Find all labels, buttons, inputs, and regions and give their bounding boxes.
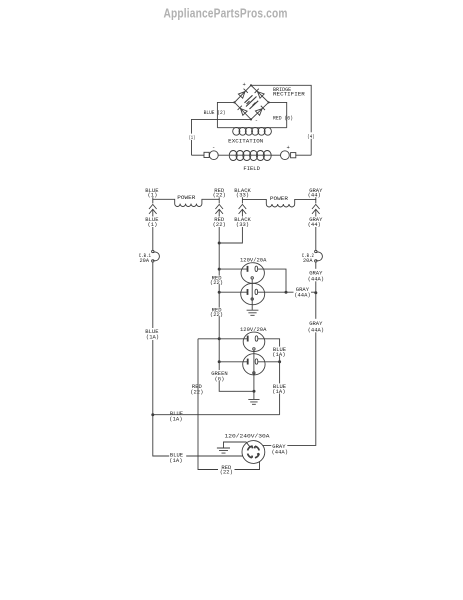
wire: bridge + output to right bus (4) xyxy=(251,85,311,155)
svg-text:BLUE (2): BLUE (2) xyxy=(204,109,226,116)
svg-text:-: - xyxy=(212,144,215,151)
J1 top ground hole xyxy=(251,277,253,279)
J2 bottom slots xyxy=(247,359,249,365)
label RED (22) at J3 bottom xyxy=(218,465,235,475)
svg-text:(1): (1) xyxy=(189,134,195,141)
wire: BLACK column joins RED xyxy=(219,199,242,243)
svg-text:+: + xyxy=(243,81,246,88)
svg-text:+: + xyxy=(287,144,290,151)
wire: bridge right AC corner down to excitation xyxy=(269,102,287,127)
bridge center scribble marks xyxy=(245,95,259,109)
node blue junction left xyxy=(151,413,154,416)
power switch S1 winding xyxy=(153,197,219,206)
svg-text:AppliancePartsPros.com: AppliancePartsPros.com xyxy=(164,7,288,21)
svg-text:(22): (22) xyxy=(220,469,233,476)
receptacle J1 bottom outlet body xyxy=(241,283,265,304)
svg-text:(1A): (1A) xyxy=(272,388,285,395)
connector P4 (GRAY) xyxy=(312,204,320,214)
diode D4 (lower-right edge) xyxy=(255,106,265,116)
node J1 right riser junction xyxy=(285,291,288,294)
bridge corner junctions xyxy=(250,84,252,86)
node gray bus junction xyxy=(314,291,317,294)
svg-text:(44A): (44A) xyxy=(308,327,325,334)
label GRAY (44A) below breaker xyxy=(306,269,327,282)
wire: ground to J3 xyxy=(224,442,251,448)
diode D1 (upper-left edge) xyxy=(238,89,247,99)
label BLUE (1A) lower right of J2 xyxy=(272,383,287,393)
label BLUE (1) below connector xyxy=(143,217,162,228)
wire: RED column vertical xyxy=(219,199,254,391)
wire: field coil to plus terminal xyxy=(272,154,280,156)
circuit breaker C.B.2 xyxy=(315,250,317,252)
connector P3 (BLACK) xyxy=(239,204,247,214)
label BLUE (1A) right of J2 xyxy=(272,347,287,357)
svg-text:(1): (1) xyxy=(148,221,158,228)
label GRAY (44A) mid xyxy=(306,319,327,333)
J3 slot top-right xyxy=(255,446,260,450)
label BLUE (1A) at bottom wire xyxy=(169,452,186,463)
svg-text:POWER: POWER xyxy=(177,194,196,201)
label GRAY (44) below connector xyxy=(306,217,326,228)
wire: J2 bottom right to blue riser xyxy=(258,361,280,363)
node: black/red junction xyxy=(218,242,221,245)
svg-text:-: - xyxy=(255,117,258,124)
svg-text:(4): (4) xyxy=(307,133,314,140)
svg-text:20A: 20A xyxy=(303,257,313,264)
wire: J1 outputs to gray bus xyxy=(258,291,316,293)
receptacle J2 top outlet body xyxy=(243,332,265,351)
J1 bottom ground hole xyxy=(251,298,253,300)
node (4) label xyxy=(307,132,316,139)
svg-text:FIELD: FIELD xyxy=(243,165,260,172)
label RED (22) at J1 xyxy=(211,276,222,285)
wire: plus terminal to right bus xyxy=(296,154,311,156)
nodes on red bus at J2 xyxy=(218,337,221,340)
connector P1 (BLUE) xyxy=(149,204,157,214)
svg-text:POWER: POWER xyxy=(270,195,289,202)
svg-text:(44): (44) xyxy=(308,192,321,199)
svg-text:(22): (22) xyxy=(210,279,223,286)
wire: field row left xyxy=(192,154,205,156)
receptacle J1 top outlet body xyxy=(241,263,264,284)
wire: red feed to J2 bottom xyxy=(219,361,247,363)
svg-text:(33): (33) xyxy=(236,221,249,228)
wire: terminal to field coil xyxy=(218,154,228,156)
wire: BLUE column vertical xyxy=(153,199,243,456)
svg-text:(1A): (1A) xyxy=(146,334,159,341)
field winding L2 xyxy=(228,154,272,156)
wire: GRAY column vertical xyxy=(263,199,316,445)
J2 top ground hole xyxy=(253,348,255,350)
connector P2 (RED) xyxy=(215,204,223,214)
svg-text:(1A): (1A) xyxy=(169,457,182,464)
J3 slot bottom-left xyxy=(248,454,253,458)
svg-text:120/240V/30A: 120/240V/30A xyxy=(225,433,271,440)
diode D3 (lower-left edge) xyxy=(238,106,248,116)
bridge rectifier BR1 diamond outline xyxy=(235,85,269,119)
label BLUE (1A) mid-left xyxy=(143,328,162,340)
diode D2 (upper-right edge) xyxy=(255,89,265,99)
svg-text:(1A): (1A) xyxy=(169,415,182,422)
J1 ground line xyxy=(251,279,253,310)
wire: J2 top right to blue riser xyxy=(258,339,280,415)
wire: red drop to twist-lock bottom xyxy=(198,339,260,470)
wire: blue cross wire xyxy=(153,414,280,416)
circuit breaker C.B.1 xyxy=(152,250,154,252)
receptacle J3 twist-lock body xyxy=(242,441,265,464)
ground symbol G1 xyxy=(247,310,259,315)
J1 bottom slots xyxy=(247,289,249,295)
svg-text:(G): (G) xyxy=(215,376,225,383)
receptacle J2 bottom outlet body xyxy=(243,354,265,375)
J3 slot bottom-right xyxy=(255,454,259,458)
node (1) label xyxy=(188,134,195,140)
wire: red feed to J1 bottom xyxy=(219,291,247,293)
field terminal plus (plug) xyxy=(281,151,290,160)
svg-text:(44): (44) xyxy=(308,221,321,228)
svg-text:120V/20A: 120V/20A xyxy=(240,256,267,263)
wire: bridge - corner to left bus (1), BLUE (2) xyxy=(192,119,252,155)
label BLACK (33) below connector xyxy=(233,217,253,228)
J3 slot top-left xyxy=(248,446,253,450)
svg-text:RED (6): RED (6) xyxy=(273,114,293,121)
label BLUE (1A) on cross wire xyxy=(169,410,186,421)
svg-text:(22): (22) xyxy=(190,388,203,395)
J2 bottom ground hole xyxy=(253,372,255,374)
svg-text:(22): (22) xyxy=(210,311,223,318)
label RED (22) below connector xyxy=(210,217,229,228)
svg-text:(1A): (1A) xyxy=(272,351,285,358)
svg-text:20A: 20A xyxy=(140,257,150,264)
ground symbol G3 xyxy=(217,448,230,453)
wire: red feed to J1 top xyxy=(219,268,247,270)
svg-text:(44A): (44A) xyxy=(308,276,325,283)
field terminal minus (plug) xyxy=(204,152,209,157)
label GRAY (44A) at junction xyxy=(294,286,312,297)
J2 ground line xyxy=(253,350,255,399)
J2 top slots xyxy=(247,336,249,342)
ground symbol G2 xyxy=(248,399,259,404)
node green/ground junction xyxy=(253,390,256,393)
label GREEN (G) xyxy=(211,370,229,381)
power switch S2 winding xyxy=(242,197,315,207)
J1 top slots xyxy=(247,266,249,272)
svg-text:(22): (22) xyxy=(213,221,226,228)
svg-text:(44A): (44A) xyxy=(272,448,289,455)
nodes on red bus at J1 xyxy=(218,268,221,271)
node on blue riser at J2 xyxy=(278,360,281,363)
wire: bridge left AC corner down to excitation xyxy=(217,102,234,127)
svg-text:(44A): (44A) xyxy=(294,292,311,299)
excitation winding L1 xyxy=(217,127,286,129)
wire: red drop feed to J2 top xyxy=(198,338,247,340)
svg-text:EXCITATION: EXCITATION xyxy=(228,137,263,144)
wire: J1 top to right riser xyxy=(258,269,286,292)
label RED (22) below J1 xyxy=(211,308,222,317)
svg-text:RECTIFIER: RECTIFIER xyxy=(273,91,306,98)
label RED (22) on drop wire xyxy=(190,383,202,394)
label GRAY (44A) at J3 xyxy=(271,443,287,454)
